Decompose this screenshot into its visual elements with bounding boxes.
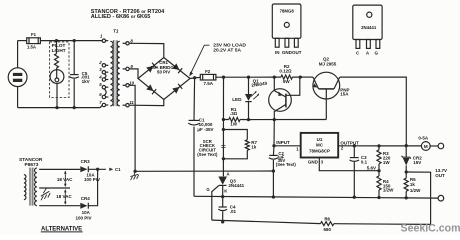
wire fuse F2 to LED tap xyxy=(216,76,249,78)
transformer T1 primary tap 2 xyxy=(98,60,108,67)
wire rail to Q1 emitter tap xyxy=(249,76,275,78)
wire ground bus to bottom rail xyxy=(272,171,274,197)
wire tap 8 to bridge top corner xyxy=(129,43,164,57)
transformer T1 secondary tap 11 xyxy=(123,100,135,107)
svg-text:11: 11 xyxy=(129,100,134,105)
svg-text:1W: 1W xyxy=(230,122,238,127)
resistor R3 220 1W xyxy=(377,146,391,171)
svg-text:20.2V AT 5A: 20.2V AT 5A xyxy=(213,47,241,53)
svg-text:R6: R6 xyxy=(324,217,330,222)
wire secondary top to diode CR3 xyxy=(39,168,80,170)
transformer T1 secondary tap 9 xyxy=(123,64,134,71)
capacitor C4 .01 (gate) xyxy=(218,197,236,222)
wire common bus (ground reference) xyxy=(135,170,273,172)
transformer T1 primary tap 1 xyxy=(100,34,108,43)
wire crowbar sense (CR2/R5 junction to gate network) xyxy=(334,172,431,224)
svg-text:R5: R5 xyxy=(410,177,416,182)
wire raw supply vertical (F2 node down to SCR anode) xyxy=(222,77,224,176)
SCR check jack marks xyxy=(221,145,225,147)
svg-text:OUTPUT: OUTPUT xyxy=(340,140,359,145)
wire tap 10 down to chassis ground xyxy=(129,85,135,171)
svg-text:7.5A: 7.5A xyxy=(203,81,213,86)
svg-text:INPUT: INPUT xyxy=(276,140,290,145)
svg-text:15A: 15A xyxy=(340,92,349,97)
dimension arrows 18 VAC (lower) xyxy=(56,189,72,205)
svg-text:2N4441: 2N4441 xyxy=(361,25,377,30)
diode CR3 10A 100PIV xyxy=(80,159,100,182)
svg-text:10: 10 xyxy=(129,80,134,85)
svg-text:1W: 1W xyxy=(383,160,391,165)
jumper taps 5-6 xyxy=(104,89,106,96)
wire fuse F1 to transformer tap 1 xyxy=(40,40,102,42)
svg-text:1.5A: 1.5A xyxy=(27,45,36,50)
svg-text:LED: LED xyxy=(232,97,242,102)
wire capacitor C1 to bottom rail xyxy=(193,127,195,197)
svg-text:18 VAC: 18 VAC xyxy=(57,177,73,182)
wire U1 ground pin to divider xyxy=(308,158,379,171)
resistor R6 680 (gate) xyxy=(321,217,334,233)
svg-text:5W: 5W xyxy=(283,79,291,84)
svg-text:T1: T1 xyxy=(113,29,119,34)
AC line plug xyxy=(8,68,27,87)
transistor Q2 MJ2955 xyxy=(313,57,350,120)
package outline SCR 2N4441 (C A G) xyxy=(353,5,382,56)
svg-text:1k: 1k xyxy=(410,182,416,187)
svg-text:OUT: OUT xyxy=(292,50,302,55)
jumper taps 3-4 xyxy=(104,74,106,78)
wire tap 11 to bridge bottom corner xyxy=(129,100,164,106)
fuse F2 7.5A xyxy=(200,69,216,86)
svg-text:GND: GND xyxy=(308,159,319,164)
svg-text:SeekIC.com: SeekIC.com xyxy=(401,222,460,234)
transformer T1 secondary tap 8 xyxy=(123,38,134,45)
svg-text:0.12Ω: 0.12Ω xyxy=(279,68,292,73)
wire bottom negative rail xyxy=(194,196,438,198)
svg-text:MC: MC xyxy=(316,143,324,148)
wire bridge + corner to fuse F2 xyxy=(190,77,200,78)
transformer T1 core xyxy=(113,40,117,106)
wire rail R2 to Q2 emitter xyxy=(300,76,313,78)
wire CR3 to C1 arrow xyxy=(88,168,106,170)
svg-text:15V: 15V xyxy=(413,160,421,165)
svg-text:M: M xyxy=(424,144,428,149)
svg-text:C1: C1 xyxy=(115,167,121,172)
svg-text:2N4441: 2N4441 xyxy=(228,183,244,188)
wire capacitor C5 to bottom line xyxy=(73,79,75,108)
transformer T1 secondary tap 10 xyxy=(123,80,135,87)
svg-text:.01: .01 xyxy=(230,209,237,214)
svg-text:78MG8: 78MG8 xyxy=(280,9,295,14)
alternative transformer core xyxy=(30,168,34,206)
transformer T1 secondary winding xyxy=(117,41,120,106)
svg-text:(See Text): (See Text) xyxy=(276,162,297,167)
resistor R5 1k 1/2W xyxy=(404,172,421,198)
svg-text:1/2W: 1/2W xyxy=(410,188,421,193)
note SCR check circuit xyxy=(197,139,218,157)
wire tap 9 to bridge left corner xyxy=(129,69,138,79)
transformer T1 primary tap 4 xyxy=(98,74,108,81)
zener diode CR2 15V xyxy=(402,146,423,172)
transformer T1 primary tap 5 xyxy=(99,82,108,89)
svg-text:(See Text): (See Text) xyxy=(197,152,218,157)
wire plug top lead xyxy=(17,41,19,68)
bridge diode (top-right) xyxy=(172,63,179,70)
wire secondary center tap xyxy=(39,187,70,189)
SCR Q3 2N4441 crowbar xyxy=(206,172,244,221)
note 23V no load with leader arrow xyxy=(189,42,246,76)
pilot light dashed enclosure xyxy=(50,42,69,98)
transistor Q1 2N6049 xyxy=(251,77,300,120)
svg-text:ALLIED - 6K86 or 6K65: ALLIED - 6K86 or 6K65 xyxy=(91,14,151,20)
chassis ground (secondary common) xyxy=(130,170,138,180)
svg-text:1kV: 1kV xyxy=(82,79,90,84)
capacitor C1 10,000uF 35V xyxy=(188,117,213,132)
diode CR4 10A 100PIV xyxy=(76,196,92,220)
svg-text:18 VAC: 18 VAC xyxy=(56,194,72,199)
alternative transformer primary winding xyxy=(24,175,26,200)
bridge rectifier CR1 diamond xyxy=(138,58,190,100)
wire rail to capacitor C5 xyxy=(73,41,75,75)
svg-text:F2: F2 xyxy=(205,69,211,74)
svg-text:IN: IN xyxy=(275,50,280,55)
wire CR4 output up to CR3 output xyxy=(88,169,97,205)
wire secondary bottom to diode CR4 xyxy=(39,205,80,207)
transformer T1 primary winding xyxy=(110,41,113,106)
fuse F1 1.5A xyxy=(27,32,41,49)
bridge diode (bottom-right) xyxy=(172,87,179,94)
wire bottom line to transformer tap 7 xyxy=(18,105,103,107)
svg-text:U1: U1 xyxy=(317,137,323,142)
bridge diode (left-top) xyxy=(146,66,153,73)
resistor R2 0.12 ohm 5W (in rail) xyxy=(274,64,300,84)
wire U1 output xyxy=(338,145,421,147)
output terminal + xyxy=(438,143,444,149)
wire plug to fuse F1 xyxy=(18,40,27,42)
svg-text:78MG8CP: 78MG8CP xyxy=(309,148,330,153)
svg-text:4: 4 xyxy=(98,74,102,79)
wire base bus (Q1 collector / Q2 base / U1 input node) xyxy=(249,119,327,121)
wire meter to + output terminal xyxy=(430,145,438,147)
svg-text:P8673: P8673 xyxy=(25,162,39,168)
svg-text:680: 680 xyxy=(323,227,331,232)
wire U1 input node down from collector junction xyxy=(273,120,275,146)
package outline regulator 78MG8 (IN GND OUT) xyxy=(272,4,301,55)
wire plug bottom lead xyxy=(17,87,19,108)
capacitor C5 .001 1kV xyxy=(70,71,91,84)
svg-text:0-5A: 0-5A xyxy=(418,136,429,141)
bridge diode (left-bottom) xyxy=(146,84,153,91)
transformer T1 primary tap 7 xyxy=(99,100,108,107)
pilot lamp xyxy=(50,68,64,84)
SCR check circuit loop wires xyxy=(223,130,247,159)
chassis ground (center tap) xyxy=(41,188,50,200)
wire bridge output down to capacitor C1 xyxy=(193,78,196,121)
svg-text:50 PIV: 50 PIV xyxy=(157,70,170,75)
capacitor C3 0.1 xyxy=(350,146,368,197)
resistor R4 150 1/2W xyxy=(377,171,394,198)
svg-text:2: 2 xyxy=(98,60,102,65)
LED indicator xyxy=(232,77,259,119)
ammeter M 0-5A xyxy=(418,136,430,151)
svg-text:µF -35V: µF -35V xyxy=(197,127,213,132)
wire pilot lamp to bottom line xyxy=(56,84,58,108)
svg-text:LIGHT: LIGHT xyxy=(52,48,66,53)
svg-text:MJ 2955: MJ 2955 xyxy=(319,62,337,67)
alternative transformer secondary winding xyxy=(35,168,37,206)
capacitor C2 1uF 35V xyxy=(269,146,297,171)
svg-text:A: A xyxy=(227,172,230,177)
svg-text:0.1: 0.1 xyxy=(361,159,368,164)
resistor R1 .3 ohm 1W xyxy=(223,107,248,127)
wire U1 input xyxy=(274,145,301,147)
svg-text:CR3: CR3 xyxy=(81,159,90,164)
transformer T1 primary tap 6 xyxy=(99,92,108,99)
transformer T1 primary tap 3 xyxy=(99,67,108,74)
dimension arrows 18 VAC (upper) xyxy=(57,171,73,187)
output terminal - xyxy=(438,195,444,201)
svg-text:1/2W: 1/2W xyxy=(383,188,394,193)
svg-text:5.6V: 5.6V xyxy=(367,165,376,170)
IC U1 MC78MG8CP xyxy=(301,133,339,158)
svg-text:CR4: CR4 xyxy=(81,196,90,201)
svg-text:OUT: OUT xyxy=(435,173,445,178)
svg-text:1k: 1k xyxy=(251,145,257,150)
wire rail to pilot resistor xyxy=(56,41,58,54)
resistor R7 1k (SCR check) xyxy=(245,140,257,151)
wire gate line to SCR gate xyxy=(212,220,321,224)
note ALTERNATIVE xyxy=(41,227,83,233)
svg-text:F1: F1 xyxy=(31,32,37,37)
svg-text:G: G xyxy=(375,51,379,56)
pilot dropping resistor xyxy=(55,54,59,68)
svg-text:.3Ω: .3Ω xyxy=(230,111,238,116)
svg-text:100 PIV: 100 PIV xyxy=(76,215,92,220)
wire Q2 collector rail to output xyxy=(340,77,407,146)
